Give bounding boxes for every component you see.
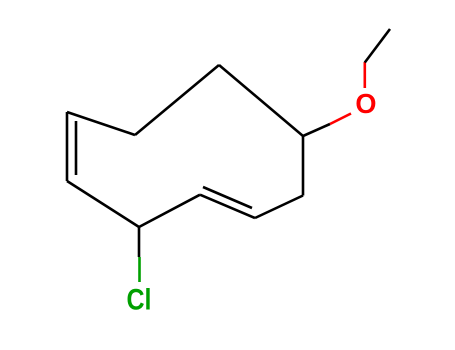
wire: A-O bond black half xyxy=(303,124,330,136)
wire: bond A-A2 (right vertical) xyxy=(302,136,305,196)
wire: bond B-P (roof left branch) xyxy=(135,65,219,135)
wire: O-CH3 red vertical half xyxy=(363,62,366,88)
wire: bond N-M inner parallel line xyxy=(203,187,252,208)
wire: C-Cl bond lower green half xyxy=(138,257,141,282)
svg-text:Cl: Cl xyxy=(127,284,152,317)
wire: bond N-M (double bond outer) xyxy=(200,195,255,218)
wire: bond V-LB xyxy=(67,181,139,227)
wire: bond LB-LT (left vertical, double bond outer) xyxy=(66,112,69,181)
wire: bond LT-B (top-left shallow) xyxy=(67,112,135,135)
wire: bond M-V xyxy=(139,195,200,227)
wire: bond P-A (roof right branch) xyxy=(219,65,303,136)
wire: bond A2-N xyxy=(255,196,303,219)
wire: A-O bond red half xyxy=(330,114,351,125)
wire: bond LB-LT inner parallel line xyxy=(75,121,78,175)
wire: O-CH3 black slanted half xyxy=(365,29,390,63)
wire: C-Cl bond upper black half xyxy=(138,227,141,257)
svg-text:O: O xyxy=(355,88,376,119)
